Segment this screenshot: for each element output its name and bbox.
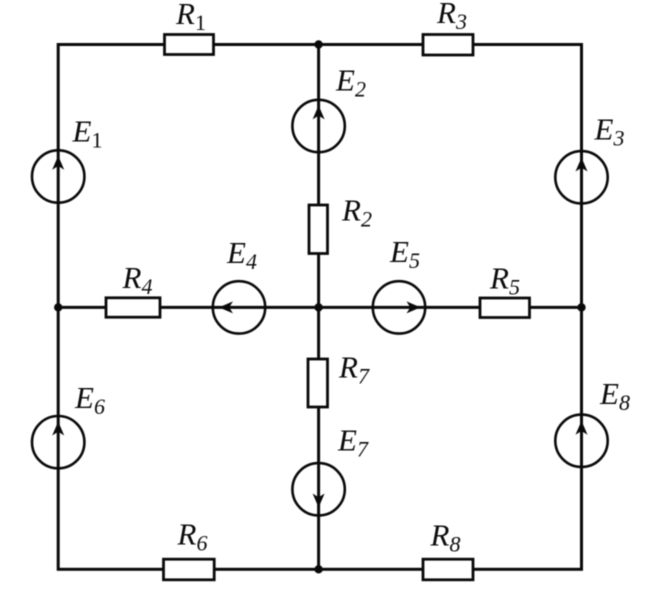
- source E3 circle: [555, 151, 607, 203]
- resistor R6: [164, 559, 215, 580]
- wire outer loop: [58, 45, 581, 570]
- source E4 circle: [213, 281, 265, 333]
- source E3 arrowhead: [576, 158, 588, 172]
- node left-middle junction: [54, 303, 62, 311]
- node bottom-center junction: [314, 565, 322, 573]
- resistor R1: [165, 35, 214, 55]
- source E5 circle: [373, 281, 425, 333]
- source E8 circle: [555, 415, 607, 467]
- source E8 arrowhead: [576, 421, 588, 435]
- source E1 arrowhead: [52, 156, 64, 170]
- wire center vertical: [317, 45, 320, 570]
- source E1 circle: [32, 150, 84, 202]
- source E7 arrowhead: [313, 494, 325, 508]
- resistor R3: [423, 35, 473, 56]
- source E2 arrowhead: [313, 105, 325, 119]
- source E4 arrowhead: [219, 301, 233, 313]
- resistor R4: [106, 298, 160, 317]
- source E7 circle: [292, 463, 344, 515]
- source E6 arrowhead: [52, 422, 64, 436]
- source E6 circle: [32, 416, 84, 468]
- resistor R7: [308, 359, 328, 407]
- node right-middle junction: [577, 303, 585, 311]
- source E2 circle: [292, 100, 344, 152]
- source E5 arrowhead: [407, 301, 421, 313]
- resistor R5: [480, 298, 530, 318]
- node center junction: [314, 303, 322, 311]
- wire middle horizontal: [58, 306, 581, 309]
- resistor R8: [423, 559, 473, 580]
- node top-center junction: [314, 40, 322, 48]
- resistor R2: [309, 205, 328, 254]
